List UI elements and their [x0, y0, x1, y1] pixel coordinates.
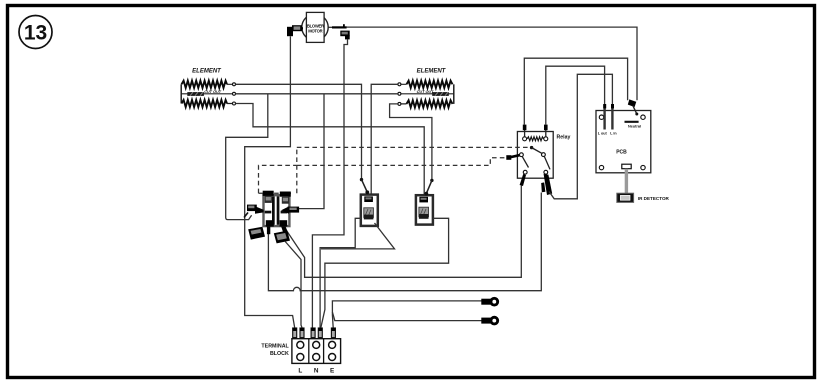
relay contacts	[520, 153, 524, 157]
element E2 (right)	[398, 69, 454, 108]
neutral node connector and diagonal into PCB	[628, 99, 637, 107]
switch S2 (right thermostat)	[416, 179, 434, 225]
blower motor M1	[302, 12, 328, 42]
rocker bottom-left pin	[266, 220, 274, 226]
ferrule F4	[318, 328, 322, 338]
wire: motor right connector to top horizontal, down to PCB neutral node	[347, 27, 638, 100]
svg-text:CUT OUT: CUT OUT	[204, 90, 222, 94]
S1 arm	[360, 178, 363, 181]
PCB neutral terminal	[625, 121, 639, 123]
svg-text:CUT OUT: CUT OUT	[417, 90, 435, 94]
svg-text:E: E	[330, 368, 335, 375]
wire: relay left contact pin down and left to rocker bottom-right pin	[286, 186, 522, 278]
figure number circle 13	[19, 16, 52, 49]
wire: S1 bottom pin diagonal to jog joining N run	[321, 223, 395, 249]
element E1 terminals	[233, 83, 236, 86]
dashed link D2 to relay left pivot	[297, 158, 507, 166]
ring terminal upper	[481, 297, 499, 307]
rocker switch SW (double pole)	[244, 191, 299, 244]
wire: S2 bottom exit right, down, left, down to ferrule F4 (terminal N)	[321, 218, 449, 327]
svg-text:N: N	[314, 368, 319, 375]
rocker left spade	[247, 205, 257, 212]
element E1 (left)	[181, 69, 235, 108]
relay coil	[523, 137, 527, 141]
cut-out block E2	[432, 92, 449, 96]
IR detector	[617, 193, 634, 202]
wire: relay coil right pin up and right to PCB L out	[546, 66, 605, 125]
PCB pin L out	[603, 105, 605, 130]
ferrule F5	[331, 328, 335, 338]
svg-text:Relay: Relay	[557, 135, 571, 141]
terminal block	[261, 339, 340, 375]
svg-text:PCB: PCB	[616, 149, 627, 155]
rocker right spade	[281, 206, 289, 213]
rocker bottom-left spade (piggyback on mains wire)	[248, 227, 265, 240]
relay coil pins up	[525, 125, 546, 137]
wire: relay right contact pin down and left to rocker bottom-left pin (with hop)	[268, 193, 541, 291]
earth run: ferrule F5 up and right to ring terminals	[332, 301, 481, 328]
ribbon cable	[625, 169, 628, 193]
S2 arm	[430, 179, 433, 182]
switch S1 (left thermostat)	[360, 178, 378, 226]
motor right connector	[328, 24, 350, 39]
wire: E2 top terminal left then down into switch S1 pin	[371, 84, 398, 197]
wire: E1 bottom terminal long run to switch S2 pin	[236, 104, 425, 198]
rocker bottom-right pin	[280, 220, 288, 226]
wire: middle-net branch down-left to rocker switch left spade	[226, 94, 268, 220]
cut-out block E1	[187, 92, 204, 96]
wire: relay coil left pin up and right to neutral node	[524, 58, 627, 125]
wire: relay right contact to PCB L in	[549, 74, 612, 199]
dashed mechanical link box around rocker switch	[259, 165, 297, 193]
wire: E1 top terminal right then down to switch S1 arm	[236, 84, 362, 179]
ferrule F3	[311, 328, 315, 338]
dashed link D1 to relay right arm	[297, 146, 532, 148]
svg-text:TERMINAL: TERMINAL	[261, 344, 289, 350]
svg-text:L out: L out	[598, 132, 608, 136]
ring terminal lower	[481, 316, 499, 326]
wire: E1 middle terminal to E2 middle terminal	[236, 93, 398, 95]
wire: S1 bottom exit left then down to ferrule F4 (terminal N)	[320, 218, 361, 327]
svg-text:ELEMENT: ELEMENT	[192, 69, 222, 75]
svg-text:IR DETECTOR: IR DETECTOR	[638, 196, 670, 201]
svg-text:Neutral: Neutral	[628, 124, 641, 128]
wire: middle-net branch down to rocker switch right spade	[299, 94, 324, 209]
relay U-REL	[517, 125, 570, 195]
rocker top-left connector	[263, 191, 274, 196]
ferrule F2	[300, 328, 304, 338]
PCB ribbon connector	[622, 164, 631, 169]
svg-text:13: 13	[24, 22, 47, 45]
svg-text:ELEMENT: ELEMENT	[417, 69, 447, 75]
rocker top-right connector	[280, 192, 291, 197]
wire: E2 bottom terminal down to switch S2 arm	[390, 104, 432, 180]
rocker bottom-right spade	[274, 231, 290, 244]
ferrule F1	[293, 328, 297, 338]
PCB pin L in	[611, 105, 613, 130]
svg-text:L in: L in	[610, 132, 617, 136]
wire: motor right connector down to ferrule F3 (terminal N)	[312, 39, 347, 328]
dashed link vertical to D1	[296, 147, 298, 193]
svg-text:L: L	[298, 368, 302, 375]
PCB board	[596, 99, 670, 202]
wire: rocker bottom-right spade diagonal down to ferrule F2 (terminal L)	[285, 242, 302, 328]
motor left connector	[287, 25, 303, 36]
element E2 terminals	[398, 83, 401, 86]
svg-text:BLOCK: BLOCK	[270, 351, 289, 357]
relay bottom pin connectors	[520, 174, 526, 186]
svg-text:MOTOR: MOTOR	[308, 28, 322, 33]
wire: motor left connector down, jog left, down to ferrule F1 (terminal L)	[245, 36, 295, 328]
